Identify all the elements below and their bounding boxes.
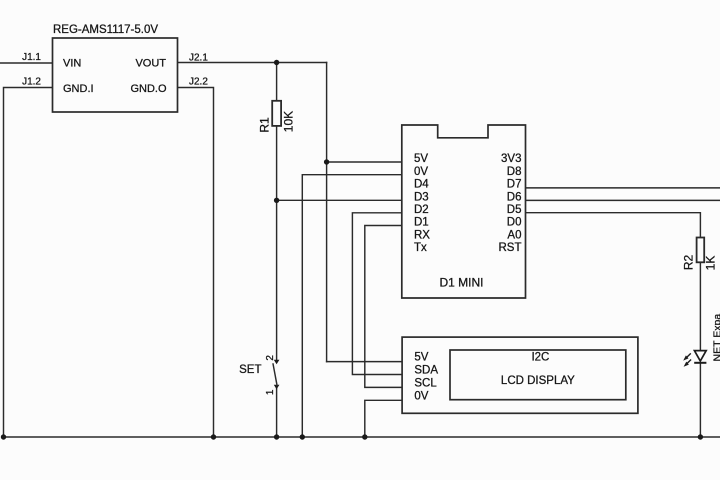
svg-text:LCD DISPLAY: LCD DISPLAY — [501, 375, 575, 387]
svg-text:J2.2: J2.2 — [189, 77, 208, 88]
junction node VOUT/R1 — [274, 60, 279, 65]
wire R1 top — [276, 63, 278, 101]
svg-text:GND.I: GND.I — [63, 83, 94, 95]
svg-text:D1: D1 — [414, 217, 429, 229]
wire 5V branch to D1 MINI pin 5V — [327, 161, 402, 163]
svg-text:D4: D4 — [414, 179, 429, 191]
junction node rail left — [1, 434, 6, 439]
svg-text:D1 MINI: D1 MINI — [439, 276, 483, 290]
wire R1 bottom to D3 node — [276, 126, 278, 200]
wire D1 net to LCD SCL — [365, 226, 402, 388]
wire R2 to LED — [699, 262, 701, 350]
wire D7 net to right edge — [526, 187, 720, 189]
svg-text:RST: RST — [499, 242, 522, 254]
wire LCD 0V to rail — [365, 400, 402, 437]
svg-text:J2.1: J2.1 — [189, 53, 208, 64]
svg-text:1K: 1K — [704, 256, 718, 271]
wire node D3 to D1 MINI pin D3 — [277, 199, 402, 201]
svg-text:SET: SET — [239, 364, 261, 376]
svg-text:REG-AMS1117-5.0V: REG-AMS1117-5.0V — [53, 24, 158, 36]
wire D3 node down to switch — [276, 200, 278, 360]
wire switch to rail — [276, 388, 278, 438]
wire D2 net to LCD SDA — [352, 213, 402, 375]
svg-text:5V: 5V — [414, 352, 428, 364]
svg-text:D6: D6 — [507, 191, 522, 203]
LED D1 — [683, 351, 706, 367]
junction node rail GND.O — [211, 434, 216, 439]
svg-text:GND.O: GND.O — [130, 83, 167, 95]
svg-text:A0: A0 — [507, 229, 521, 241]
junction node rail LED — [698, 434, 703, 439]
resistor R2 — [682, 238, 718, 271]
svg-text:NET Expa: NET Expa — [712, 314, 720, 362]
junction node R1/D3 — [274, 198, 279, 203]
svg-text:5V: 5V — [414, 153, 428, 165]
svg-text:0V: 0V — [414, 166, 428, 178]
svg-text:VOUT: VOUT — [135, 58, 166, 70]
module U3 I2C LCD DISPLAY — [402, 337, 638, 413]
switch SW1 SET — [239, 355, 279, 396]
svg-text:J1.1: J1.1 — [22, 52, 41, 63]
svg-text:2: 2 — [265, 355, 276, 361]
svg-text:3V3: 3V3 — [501, 153, 521, 165]
svg-text:1: 1 — [265, 389, 276, 395]
wire D5 net to R2 — [526, 213, 701, 238]
svg-text:R1: R1 — [258, 117, 272, 133]
resistor R1 — [258, 101, 296, 133]
svg-text:I2C: I2C — [531, 352, 549, 364]
svg-text:R2: R2 — [682, 255, 696, 271]
svg-text:J1.2: J1.2 — [22, 77, 41, 88]
wire ground rail — [4, 436, 720, 438]
junction node 5V branch — [324, 159, 329, 164]
svg-text:RX: RX — [414, 229, 430, 241]
junction node rail 0V — [300, 434, 305, 439]
wire D6 net to right edge — [526, 199, 720, 201]
svg-text:D7: D7 — [507, 179, 522, 191]
wire 0V from D1 MINI down to rail — [302, 175, 402, 437]
regulator U1 REG-AMS1117-5.0V — [53, 24, 178, 112]
svg-text:SDA: SDA — [414, 365, 438, 377]
svg-text:D8: D8 — [507, 166, 522, 178]
wire 5V branch to LCD pin 5V — [327, 361, 403, 363]
wire LED to rail — [699, 363, 701, 437]
wire VOUT to 5V column — [178, 62, 327, 64]
svg-text:D5: D5 — [507, 204, 522, 216]
svg-text:D0: D0 — [507, 217, 522, 229]
wire J1.2 GND left down to rail — [4, 88, 53, 438]
junction node rail LCD 0V — [362, 434, 367, 439]
wire GND.O down to rail — [178, 88, 214, 438]
svg-text:10K: 10K — [282, 111, 296, 132]
svg-text:D2: D2 — [414, 204, 429, 216]
svg-text:SCL: SCL — [414, 377, 437, 389]
wire 5V vertical column — [326, 63, 328, 362]
svg-text:VIN: VIN — [63, 58, 81, 70]
svg-text:D3: D3 — [414, 191, 429, 203]
wire J1.1 to VIN — [0, 62, 53, 64]
module U2 D1 MINI — [402, 125, 526, 298]
junction node rail switch — [274, 434, 279, 439]
svg-text:Tx: Tx — [414, 242, 427, 254]
svg-text:0V: 0V — [414, 390, 428, 402]
